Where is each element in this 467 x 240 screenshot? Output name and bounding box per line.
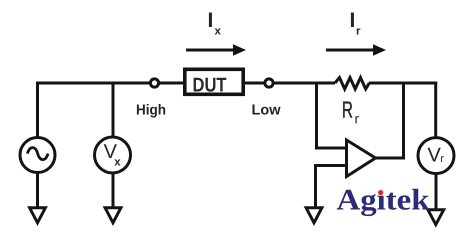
svg-text:R: R [342, 96, 353, 122]
op-amp U1 [347, 140, 376, 177]
label Ix current [208, 9, 222, 38]
node High (open terminal) [150, 79, 158, 87]
voltmeter Vr [418, 138, 454, 174]
arrow Ir [326, 44, 386, 55]
ground (op-amp non-inverting input) [306, 208, 322, 223]
label Ir current [350, 9, 362, 38]
svg-text:r: r [356, 26, 361, 38]
ground (below AC source) [30, 208, 46, 223]
AC source V1 (sine generator) [20, 138, 55, 173]
svg-text:Agıtek: Agıtek [337, 184, 430, 217]
svg-text:DUT: DUT [193, 75, 227, 97]
voltmeter Vx [95, 137, 131, 173]
svg-text:x: x [215, 26, 222, 38]
Agitek logo text [337, 184, 430, 217]
wire: op-amp output up to bus [374, 83, 404, 158]
wire: below Vr [435, 174, 438, 212]
ground (below Vr) [428, 210, 444, 225]
node Low (open terminal) [265, 79, 273, 87]
DUT box [185, 69, 243, 96]
wire: non-inverting input with ground drop [316, 166, 347, 210]
resistor Rr zigzag [335, 78, 369, 89]
wire: Vx branch vertical [112, 82, 115, 138]
svg-text:High: High [136, 103, 166, 119]
arrow Ix [186, 44, 246, 55]
svg-text:I: I [208, 9, 214, 32]
wire: below Vx [112, 173, 115, 210]
wire: main horizontal bus right section [369, 82, 437, 85]
wire: left branch vertical (source to bus) [36, 82, 39, 138]
ground (below Vx) [105, 208, 121, 223]
svg-text:Low: Low [252, 103, 282, 119]
svg-text:I: I [350, 9, 356, 32]
svg-text:x: x [114, 156, 121, 168]
wire: main horizontal bus left section [36, 82, 335, 85]
label Rr [342, 96, 360, 126]
svg-text:r: r [440, 153, 444, 165]
wire: below AC source [36, 173, 39, 210]
svg-text:r: r [355, 111, 360, 127]
wire: inverting input drop from bus [317, 82, 347, 149]
wire: right corner drop to Vr [434, 82, 437, 138]
